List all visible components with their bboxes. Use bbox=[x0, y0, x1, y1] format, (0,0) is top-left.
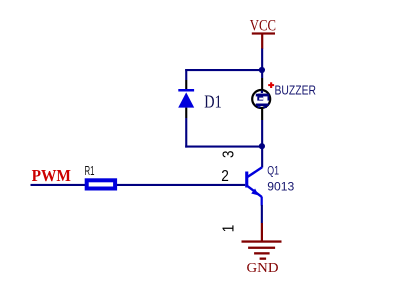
node bottom junction bbox=[259, 143, 265, 149]
power port GND bbox=[242, 223, 282, 275]
transistor Q1 bbox=[245, 167, 263, 205]
wire VCC stem to top junction bbox=[261, 49, 263, 71]
wire diode branch bottom bbox=[185, 108, 187, 118]
wire buzzer to bottom junction bbox=[261, 109, 263, 121]
svg-text:D1: D1 bbox=[204, 92, 221, 112]
wire top horizontal bbox=[185, 69, 263, 71]
svg-text:GND: GND bbox=[247, 260, 279, 275]
buzzer LS1 bbox=[252, 90, 270, 108]
svg-text:Q1: Q1 bbox=[267, 166, 279, 178]
diode D1 bbox=[178, 89, 194, 108]
svg-text:BUZZER: BUZZER bbox=[275, 83, 317, 98]
wire PWM to resistor bbox=[31, 184, 246, 186]
svg-text:9013: 9013 bbox=[267, 179, 294, 193]
resistor R1 bbox=[87, 180, 115, 188]
svg-text:VCC: VCC bbox=[250, 17, 276, 34]
svg-text:3: 3 bbox=[221, 150, 238, 158]
svg-text:2: 2 bbox=[221, 168, 229, 185]
svg-text:R1: R1 bbox=[85, 163, 95, 178]
svg-text:PWM: PWM bbox=[32, 166, 71, 185]
wire junction to collector bbox=[261, 146, 263, 167]
wire junction to buzzer bbox=[261, 70, 263, 78]
buzzer plus mark bbox=[268, 82, 274, 88]
node top junction bbox=[259, 67, 265, 73]
wire diode branch top bbox=[185, 69, 187, 80]
wire bottom horizontal bbox=[185, 146, 263, 148]
svg-text:1: 1 bbox=[220, 225, 237, 233]
wire emitter down bbox=[261, 205, 263, 223]
power port VCC bbox=[250, 17, 276, 48]
